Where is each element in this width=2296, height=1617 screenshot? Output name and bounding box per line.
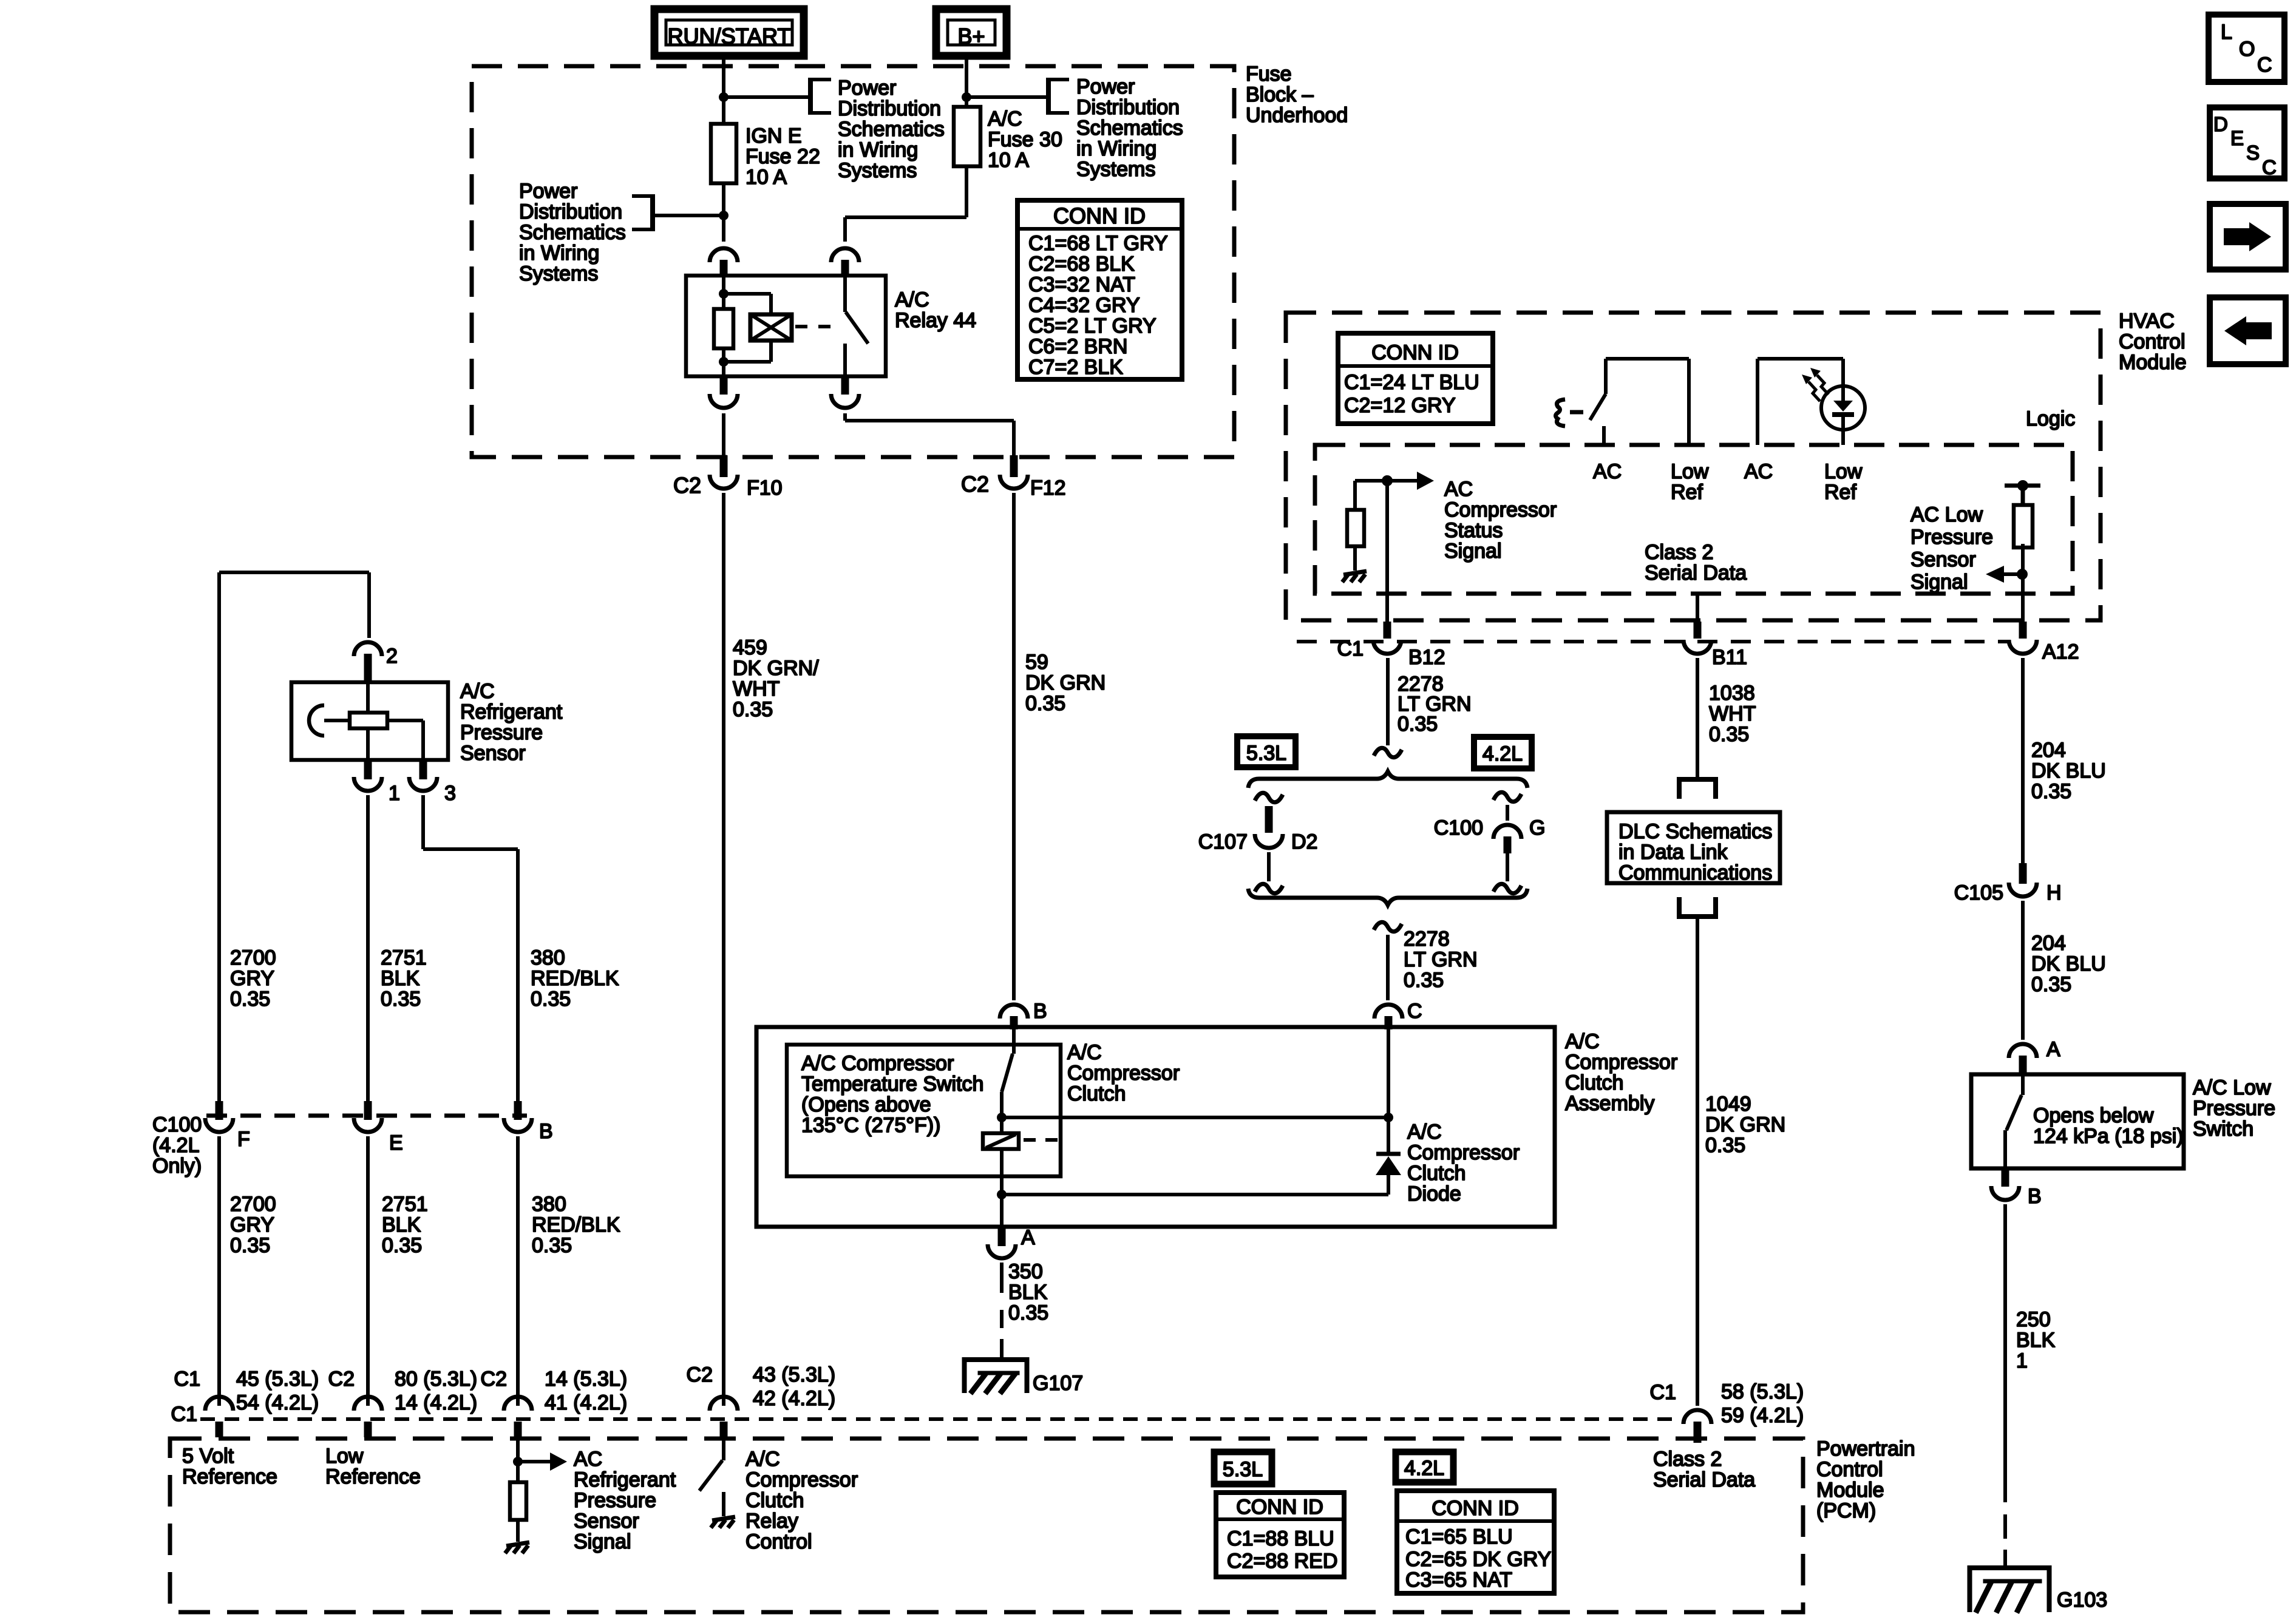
label Low Ref (LED) bbox=[1824, 460, 1863, 504]
connector C100 pin F bbox=[205, 1101, 233, 1132]
wire fuse 30 to relay switch input bbox=[845, 166, 966, 242]
AC request switch (HVAC internal) bbox=[1590, 359, 1689, 445]
svg-text:C: C bbox=[1407, 1000, 1422, 1023]
status signal pull resistor bbox=[1347, 510, 1364, 546]
svg-text:5.3L: 5.3L bbox=[1223, 1458, 1263, 1481]
connector C2 (clutch relay control into PCM) bbox=[710, 1397, 738, 1437]
svg-text:Underhood: Underhood bbox=[1246, 104, 1348, 127]
junction node on IGN E feed (lower) bbox=[719, 211, 729, 220]
svg-text:F12: F12 bbox=[1030, 476, 1066, 500]
label Power Distribution Schematics in Wiring Systems (left) bbox=[519, 180, 626, 285]
conn id table 4.2L (PCM) bbox=[1397, 1491, 1554, 1593]
svg-text:IGN E: IGN E bbox=[746, 124, 802, 147]
engine option box 4.2L (PCM) bbox=[1396, 1452, 1453, 1482]
svg-text:Ref: Ref bbox=[1824, 481, 1856, 504]
AC compressor status signal node bbox=[1355, 475, 1393, 511]
wire B11 inside HVAC bbox=[1696, 594, 1699, 622]
svg-text:0.35: 0.35 bbox=[382, 1234, 422, 1257]
ground G103 bbox=[1970, 1568, 2050, 1613]
label Logic bbox=[2026, 407, 2075, 430]
svg-text:A/C: A/C bbox=[1067, 1041, 1102, 1064]
svg-text:DK GRN/: DK GRN/ bbox=[733, 657, 819, 680]
low pressure sensor pull resistor bbox=[2014, 505, 2033, 547]
status signal ground bbox=[1342, 546, 1367, 582]
svg-text:C1=65 BLU: C1=65 BLU bbox=[1405, 1525, 1513, 1548]
svg-text:in Wiring: in Wiring bbox=[1076, 137, 1156, 160]
label 2700 GRY 0.35 (upper) bbox=[230, 946, 276, 1011]
connector C1 B12 out of HVAC bbox=[1373, 622, 1401, 654]
svg-text:Communications: Communications bbox=[1618, 861, 1772, 884]
svg-text:1049: 1049 bbox=[1705, 1093, 1751, 1116]
A/C compressor clutch assembly box bbox=[756, 1027, 1555, 1227]
svg-text:43 (5.3L): 43 (5.3L) bbox=[753, 1363, 835, 1386]
svg-text:CONN ID: CONN ID bbox=[1236, 1496, 1323, 1519]
pin label B (switch) bbox=[2028, 1185, 2042, 1208]
label 1038 WHT 0.35 bbox=[1709, 682, 1756, 746]
A/C refrigerant pressure sensor box bbox=[291, 682, 448, 760]
svg-text:Relay: Relay bbox=[746, 1510, 798, 1533]
label A/C Refrigerant Pressure Sensor bbox=[460, 680, 563, 765]
reference bracket (power distribution left) bbox=[632, 194, 653, 231]
wire 2751 BLK lower bbox=[366, 1136, 370, 1406]
svg-text:AC Low: AC Low bbox=[1911, 503, 1983, 526]
label Class 2 Serial Data (HVAC) bbox=[1645, 541, 1747, 585]
label G103 bbox=[2057, 1588, 2107, 1612]
svg-text:B: B bbox=[1033, 1000, 1047, 1023]
svg-text:Power: Power bbox=[519, 180, 577, 203]
svg-text:1: 1 bbox=[2016, 1349, 2028, 1372]
svg-text:C7=2 BLK: C7=2 BLK bbox=[1028, 356, 1123, 379]
wire 2278 LT GRN lower bbox=[1386, 935, 1390, 1000]
pin label F bbox=[237, 1128, 250, 1151]
label AC (LED) bbox=[1744, 460, 1773, 483]
svg-text:Reference: Reference bbox=[182, 1465, 277, 1488]
AC low pressure sensor signal tee bbox=[2005, 480, 2040, 505]
AC request switch dashed gap bbox=[1570, 410, 1583, 415]
label Low Reference bbox=[325, 1445, 421, 1488]
label C1 (B12) bbox=[1337, 637, 1364, 660]
svg-text:380: 380 bbox=[531, 946, 565, 969]
svg-text:A/C: A/C bbox=[460, 680, 495, 703]
svg-text:Control: Control bbox=[1816, 1458, 1883, 1481]
svg-text:Serial Data: Serial Data bbox=[1653, 1468, 1755, 1491]
svg-text:3: 3 bbox=[444, 782, 456, 805]
relay actuation dashed link bbox=[795, 325, 837, 328]
pin label E bbox=[389, 1131, 403, 1154]
connector C2 F12 bbox=[1000, 455, 1028, 489]
wire break curl (B12 lower) bbox=[1374, 922, 1402, 931]
svg-text:F10: F10 bbox=[747, 476, 783, 500]
svg-text:Control: Control bbox=[746, 1530, 812, 1553]
svg-text:BLK: BLK bbox=[2016, 1329, 2056, 1352]
pin label 80 (5.3L) 14 (4.2L) bbox=[395, 1368, 477, 1414]
svg-text:Serial Data: Serial Data bbox=[1645, 561, 1747, 585]
svg-text:C1: C1 bbox=[174, 1368, 200, 1391]
fuse block underhood dashed box bbox=[472, 66, 1234, 457]
connector pin 1 (pressure sensor) bbox=[354, 761, 382, 791]
svg-text:135°C (275°F)): 135°C (275°F)) bbox=[801, 1114, 940, 1137]
wire 2751 BLK upper bbox=[366, 795, 370, 1101]
HVAC harness dotted line bbox=[1297, 640, 2011, 643]
svg-text:A: A bbox=[1021, 1226, 1035, 1249]
label C2 (low ref) bbox=[328, 1368, 355, 1391]
label Opens below 124 kPa (18 psi) bbox=[2033, 1104, 2184, 1148]
icon box DESC bbox=[2210, 107, 2284, 178]
svg-text:B: B bbox=[539, 1120, 553, 1143]
pin label A12 bbox=[2042, 640, 2079, 663]
svg-text:RED/BLK: RED/BLK bbox=[532, 1213, 620, 1236]
svg-text:Low: Low bbox=[1824, 460, 1863, 483]
relay resistor bbox=[714, 309, 733, 348]
svg-text:Low: Low bbox=[325, 1445, 364, 1468]
label 2751 BLK 0.35 (lower) bbox=[382, 1193, 428, 1257]
wire 204 DK BLU upper bbox=[2021, 658, 2025, 863]
clutch coil top wire bbox=[1002, 1113, 1393, 1122]
svg-text:C1=68 LT GRY: C1=68 LT GRY bbox=[1028, 232, 1168, 255]
PCM pressure signal ground bbox=[505, 1520, 529, 1553]
wire break curl (B12 upper) bbox=[1374, 748, 1402, 757]
HVAC control module dashed box bbox=[1286, 313, 2101, 620]
pressure sensor element (half-moon) bbox=[309, 705, 350, 736]
svg-text:Schematics: Schematics bbox=[1076, 117, 1183, 140]
label 380 RED/BLK 0.35 (upper) bbox=[531, 946, 619, 1011]
svg-text:0.35: 0.35 bbox=[1398, 713, 1438, 736]
wire relay to F12 bbox=[845, 413, 1014, 455]
label C2 (F12) bbox=[961, 472, 989, 497]
svg-text:Sensor: Sensor bbox=[460, 742, 526, 765]
svg-text:1038: 1038 bbox=[1709, 682, 1755, 705]
AC indicator LED bbox=[1821, 386, 1865, 430]
svg-text:CONN ID: CONN ID bbox=[1053, 203, 1146, 228]
svg-text:2751: 2751 bbox=[382, 1193, 428, 1216]
icon box arrow right bbox=[2210, 204, 2286, 269]
svg-text:Low: Low bbox=[1671, 460, 1709, 483]
pin label H bbox=[2046, 881, 2062, 904]
svg-text:D: D bbox=[2213, 113, 2228, 135]
svg-text:Schematics: Schematics bbox=[519, 221, 626, 244]
svg-text:C2=68 BLK: C2=68 BLK bbox=[1028, 253, 1135, 276]
svg-text:0.35: 0.35 bbox=[2031, 973, 2071, 996]
svg-text:G107: G107 bbox=[1033, 1372, 1083, 1395]
svg-text:Class 2: Class 2 bbox=[1645, 541, 1713, 564]
conn id table (HVAC) bbox=[1338, 333, 1493, 424]
label C100 (4.2L Only) bbox=[152, 1113, 202, 1178]
wire 350 BLK to ground bbox=[1000, 1263, 1004, 1358]
svg-text:GRY: GRY bbox=[230, 967, 274, 990]
label IGN E Fuse 22 10 A bbox=[746, 124, 820, 189]
label C2 (F10) bbox=[673, 473, 701, 498]
connector C100 pin E bbox=[354, 1101, 382, 1132]
svg-text:Fuse 22: Fuse 22 bbox=[746, 145, 820, 168]
svg-text:C2=65 DK GRY: C2=65 DK GRY bbox=[1405, 1548, 1551, 1571]
svg-text:58 (5.3L): 58 (5.3L) bbox=[1721, 1380, 1804, 1403]
svg-text:AC: AC bbox=[1744, 460, 1773, 483]
pin label B (C100) bbox=[539, 1120, 553, 1143]
wire 459 DK GRN/WHT (F10 to PCM) bbox=[722, 493, 725, 1406]
label F12 bbox=[1030, 476, 1066, 500]
A/C compressor temperature switch box bbox=[787, 1045, 1061, 1176]
svg-text:B11: B11 bbox=[1712, 646, 1747, 669]
wire 2700 GRY lower bbox=[217, 1136, 221, 1406]
option brace lower bbox=[1248, 889, 1527, 905]
svg-text:Clutch: Clutch bbox=[1067, 1082, 1126, 1105]
svg-text:A/C: A/C bbox=[988, 107, 1022, 131]
svg-text:Module: Module bbox=[2119, 351, 2187, 374]
svg-text:C105: C105 bbox=[1954, 881, 2003, 904]
label Low Ref (switch) bbox=[1671, 460, 1709, 504]
wire B+ to fuse 30 bbox=[965, 56, 968, 107]
svg-text:2278: 2278 bbox=[1404, 927, 1450, 951]
label 2278 LT GRN 0.35 (upper) bbox=[1398, 673, 1472, 736]
label G107 bbox=[1033, 1372, 1083, 1395]
harness line PCM C1/C2 bbox=[200, 1417, 1682, 1421]
thermal element dashed link bbox=[1024, 1138, 1059, 1142]
svg-text:0.35: 0.35 bbox=[1404, 969, 1444, 992]
connector A12 out of HVAC bbox=[2009, 622, 2037, 654]
conn id table 5.3L (PCM) bbox=[1216, 1493, 1344, 1577]
svg-text:C107: C107 bbox=[1198, 830, 1248, 853]
svg-text:Refrigerant: Refrigerant bbox=[460, 700, 563, 724]
pin label 1 bbox=[389, 782, 400, 805]
svg-text:DK BLU: DK BLU bbox=[2031, 952, 2106, 975]
svg-text:4.2L: 4.2L bbox=[1483, 742, 1523, 765]
svg-text:0.35: 0.35 bbox=[733, 698, 773, 721]
svg-text:Compressor: Compressor bbox=[1565, 1051, 1677, 1074]
svg-text:0.35: 0.35 bbox=[230, 988, 270, 1011]
connector into relay switch (right pin) bbox=[831, 248, 859, 274]
svg-text:80 (5.3L): 80 (5.3L) bbox=[395, 1368, 477, 1391]
svg-text:Signal: Signal bbox=[1444, 540, 1502, 563]
svg-text:C100: C100 bbox=[152, 1113, 202, 1136]
svg-text:14 (4.2L): 14 (4.2L) bbox=[395, 1391, 477, 1414]
svg-text:Distribution: Distribution bbox=[519, 200, 622, 223]
connector C1 class 2 serial data into PCM bbox=[1683, 1410, 1711, 1443]
svg-text:C1: C1 bbox=[1650, 1381, 1676, 1404]
svg-text:(PCM): (PCM) bbox=[1816, 1499, 1876, 1522]
svg-text:5 Volt: 5 Volt bbox=[182, 1445, 234, 1468]
wire clutch to connector A bbox=[1000, 1195, 1004, 1227]
pin label 3 bbox=[444, 782, 456, 805]
svg-text:Distribution: Distribution bbox=[838, 97, 941, 120]
label 2751 BLK 0.35 (upper) bbox=[381, 946, 427, 1011]
label 459 DK GRN/WHT 0.35 bbox=[733, 636, 819, 721]
svg-text:4.2L: 4.2L bbox=[1404, 1457, 1444, 1480]
label 250 BLK 1 bbox=[2016, 1308, 2056, 1372]
label A/C Relay 44 bbox=[895, 288, 976, 332]
label C107 bbox=[1198, 830, 1248, 853]
wire 59 DK GRN (F12 to clutch B) bbox=[1012, 493, 1016, 1000]
wire RUN/START to relay (IGN E feed) bbox=[722, 56, 725, 242]
pin label C (clutch) bbox=[1407, 1000, 1422, 1023]
svg-text:Powertrain: Powertrain bbox=[1816, 1437, 1915, 1460]
connector C100 pin G bbox=[1493, 805, 1521, 853]
svg-text:C5=2 LT GRY: C5=2 LT GRY bbox=[1028, 314, 1156, 337]
svg-text:in Data Link: in Data Link bbox=[1618, 841, 1728, 864]
svg-text:A/C Low: A/C Low bbox=[2193, 1076, 2271, 1099]
pin label G bbox=[1529, 816, 1545, 839]
label 350 BLK 0.35 bbox=[1008, 1260, 1048, 1324]
connector C105 pin H bbox=[2009, 863, 2037, 897]
A/C compressor clutch diode bbox=[1376, 1117, 1401, 1195]
relay coil branch wires bbox=[724, 276, 771, 376]
temperature switch thermal element bbox=[983, 1117, 1019, 1195]
svg-text:G: G bbox=[1529, 816, 1545, 839]
svg-text:Assembly: Assembly bbox=[1565, 1092, 1654, 1115]
pin label A (switch) bbox=[2046, 1038, 2060, 1061]
conn id table (fuse block underhood) bbox=[1017, 200, 1182, 379]
label C2 (relay control) bbox=[687, 1363, 713, 1386]
svg-text:459: 459 bbox=[733, 636, 767, 659]
svg-text:Status: Status bbox=[1444, 519, 1503, 542]
reference bracket (power distribution B+) bbox=[1048, 78, 1069, 115]
connector B11 out of HVAC bbox=[1683, 622, 1711, 654]
pressure sensor internal wires bbox=[368, 682, 423, 760]
svg-text:Distribution: Distribution bbox=[1076, 96, 1180, 119]
svg-text:0.35: 0.35 bbox=[381, 988, 421, 1011]
svg-text:Clutch: Clutch bbox=[1565, 1071, 1623, 1094]
pin label A (clutch) bbox=[1021, 1226, 1035, 1249]
svg-text:5.3L: 5.3L bbox=[1246, 742, 1286, 765]
svg-text:C100: C100 bbox=[1434, 816, 1483, 839]
fuse A/C Fuse 30 10 A bbox=[954, 107, 980, 166]
PCM pressure signal wire and junction bbox=[513, 1437, 523, 1482]
svg-text:DK BLU: DK BLU bbox=[2031, 759, 2106, 782]
relay coil junction upper bbox=[719, 289, 729, 299]
connector A out of clutch assembly bbox=[988, 1227, 1016, 1258]
svg-text:Pressure: Pressure bbox=[2193, 1097, 2275, 1120]
svg-text:DK GRN: DK GRN bbox=[1025, 671, 1106, 694]
svg-text:WHT: WHT bbox=[733, 677, 779, 700]
svg-text:45 (5.3L): 45 (5.3L) bbox=[236, 1368, 319, 1391]
svg-text:BLK: BLK bbox=[381, 967, 420, 990]
LED emission arrows bbox=[1802, 368, 1829, 401]
label Power Distribution Schematics in Wiring Systems (B+) bbox=[1076, 75, 1183, 181]
label A/C Compressor Clutch Diode bbox=[1407, 1120, 1520, 1205]
connector B out of low pressure switch bbox=[1991, 1168, 2019, 1200]
svg-text:204: 204 bbox=[2031, 932, 2066, 955]
svg-text:350: 350 bbox=[1008, 1260, 1043, 1283]
icon box LOC bbox=[2209, 15, 2284, 82]
svg-text:F: F bbox=[237, 1128, 250, 1151]
wire 1038 WHT (B11 to DLC) bbox=[1696, 658, 1699, 779]
svg-text:Pressure: Pressure bbox=[1911, 526, 1993, 549]
svg-text:Clutch: Clutch bbox=[1407, 1162, 1466, 1185]
AC indicator LED branch bbox=[1758, 359, 1843, 445]
svg-text:A12: A12 bbox=[2042, 640, 2079, 663]
label A/C Compressor Clutch bbox=[1067, 1041, 1180, 1105]
svg-text:RED/BLK: RED/BLK bbox=[531, 967, 619, 990]
powertrain control module dashed box bbox=[170, 1439, 1803, 1612]
logic dashed box bbox=[1315, 445, 2073, 594]
svg-text:in Wiring: in Wiring bbox=[838, 138, 918, 161]
label A/C Compressor Temperature Switch bbox=[801, 1052, 983, 1137]
svg-text:10 A: 10 A bbox=[988, 149, 1029, 172]
svg-text:C3=65 NAT: C3=65 NAT bbox=[1405, 1568, 1512, 1592]
wire C into clutch bbox=[1387, 1029, 1390, 1117]
wire 204 DK BLU lower bbox=[2021, 901, 2025, 1040]
label C100 (G) bbox=[1434, 816, 1483, 839]
clutch coil bottom wire bbox=[997, 1190, 1388, 1199]
pin label 2 bbox=[386, 645, 398, 668]
svg-text:C6=2 BRN: C6=2 BRN bbox=[1028, 335, 1127, 358]
wire to power distribution reference (B+ right) bbox=[966, 95, 1048, 99]
svg-text:Sensor: Sensor bbox=[1911, 548, 1976, 571]
svg-text:0.35: 0.35 bbox=[1705, 1134, 1745, 1157]
label C1 (class 2) bbox=[1650, 1381, 1676, 1404]
svg-text:L: L bbox=[2221, 21, 2232, 44]
svg-text:in Wiring: in Wiring bbox=[519, 242, 599, 265]
svg-text:2700: 2700 bbox=[230, 946, 276, 969]
svg-text:E: E bbox=[389, 1131, 403, 1154]
svg-text:H: H bbox=[2046, 881, 2062, 904]
svg-text:C1=88 BLU: C1=88 BLU bbox=[1227, 1527, 1334, 1550]
svg-text:42 (4.2L): 42 (4.2L) bbox=[753, 1387, 835, 1410]
svg-text:250: 250 bbox=[2016, 1308, 2051, 1331]
icon box arrow left bbox=[2210, 297, 2286, 364]
svg-text:Systems: Systems bbox=[519, 262, 598, 285]
svg-text:WHT: WHT bbox=[1709, 702, 1756, 725]
engine option box 5.3L (branch) bbox=[1237, 736, 1296, 767]
svg-text:Pressure: Pressure bbox=[460, 721, 543, 744]
connector pin 2 (pressure sensor) bbox=[354, 642, 382, 681]
label Power Distribution Schematics in Wiring Systems (upper) bbox=[838, 76, 945, 182]
svg-text:0.35: 0.35 bbox=[1025, 692, 1065, 715]
svg-text:Sensor: Sensor bbox=[574, 1510, 639, 1533]
svg-text:A/C: A/C bbox=[746, 1448, 780, 1471]
svg-text:Systems: Systems bbox=[1076, 158, 1155, 181]
pin label 45 (5.3L) 54 (4.2L) bbox=[236, 1368, 319, 1414]
wire B12 inside HVAC bbox=[1385, 481, 1389, 622]
svg-text:0.35: 0.35 bbox=[1709, 723, 1749, 746]
svg-text:C2: C2 bbox=[481, 1368, 507, 1391]
svg-text:Compressor: Compressor bbox=[1444, 498, 1557, 521]
power feed box B+ bbox=[936, 9, 1007, 56]
svg-text:D2: D2 bbox=[1291, 830, 1317, 853]
PCM clutch relay control switch bbox=[699, 1437, 724, 1516]
label F10 bbox=[747, 476, 783, 500]
svg-text:A/C: A/C bbox=[1565, 1030, 1600, 1053]
svg-text:2700: 2700 bbox=[230, 1193, 276, 1216]
svg-text:A: A bbox=[2046, 1038, 2060, 1061]
power feed box RUN/START bbox=[654, 9, 804, 56]
svg-text:AC: AC bbox=[1593, 460, 1622, 483]
svg-text:G103: G103 bbox=[2057, 1588, 2107, 1612]
label A/C Compressor Clutch Relay Control bbox=[746, 1448, 858, 1553]
engine option box 4.2L (branch) bbox=[1474, 737, 1532, 768]
svg-text:C3=32 NAT: C3=32 NAT bbox=[1028, 273, 1135, 296]
wire to power distribution reference (left) bbox=[653, 214, 724, 217]
svg-text:41 (4.2L): 41 (4.2L) bbox=[545, 1391, 627, 1414]
svg-text:Diode: Diode bbox=[1407, 1182, 1461, 1205]
svg-text:C2: C2 bbox=[328, 1368, 355, 1391]
svg-text:Compressor: Compressor bbox=[746, 1468, 858, 1491]
DLC schematics box bbox=[1607, 812, 1780, 884]
svg-text:BLK: BLK bbox=[1008, 1281, 1048, 1304]
svg-text:O: O bbox=[2239, 38, 2255, 61]
svg-text:Reference: Reference bbox=[325, 1465, 421, 1488]
svg-text:C2=12 GRY: C2=12 GRY bbox=[1344, 394, 1456, 417]
svg-text:LT GRN: LT GRN bbox=[1404, 948, 1478, 971]
connector C1 (5V reference into PCM) bbox=[205, 1397, 233, 1437]
svg-text:Block –: Block – bbox=[1246, 83, 1314, 106]
connector C2 F10 bbox=[710, 455, 738, 489]
wire break curl (C107 D2 top) bbox=[1255, 793, 1283, 802]
engine option box 5.3L (PCM) bbox=[1214, 1452, 1272, 1484]
label C1 upper bbox=[174, 1368, 200, 1391]
svg-text:Compressor: Compressor bbox=[1067, 1062, 1180, 1085]
svg-text:C1: C1 bbox=[1337, 637, 1364, 660]
svg-text:C1=24 LT BLU: C1=24 LT BLU bbox=[1344, 371, 1479, 394]
